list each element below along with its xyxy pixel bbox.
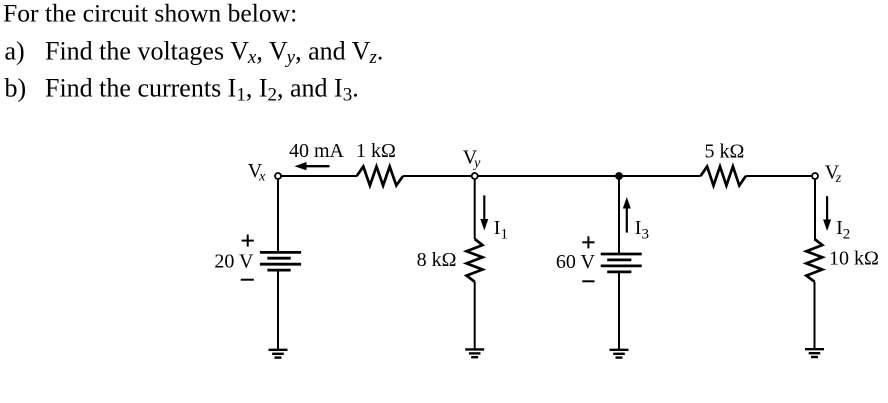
minus sign 60V (582, 280, 594, 282)
current arrow I3 up (623, 197, 631, 233)
current arrow I2 down (823, 196, 831, 231)
ground right (805, 349, 824, 357)
ground left (269, 350, 288, 358)
svg-text:b): b) (5, 73, 27, 102)
svg-text:Vx: Vx (248, 160, 266, 185)
svg-text:I1: I1 (494, 217, 508, 243)
svg-text:Find the currents I1, I2, and: Find the currents I1, I2, and I3. (45, 73, 359, 105)
ground mid-left (465, 349, 484, 357)
ground mid-right (610, 350, 629, 358)
svg-text:a): a) (5, 37, 25, 66)
svg-text:1 kΩ: 1 kΩ (356, 140, 396, 162)
junction node dot (615, 172, 623, 180)
svg-text:10 kΩ: 10 kΩ (829, 247, 879, 269)
wire mid branch: 8k to ground (474, 282, 476, 350)
wire right branch: 10k to ground (814, 282, 816, 350)
battery V2 60V (601, 254, 642, 272)
current arrow I1 down (480, 195, 488, 230)
wire left branch: battery to ground (277, 270, 279, 350)
plus sign 60V (582, 236, 594, 248)
svg-text:For the circuit shown below:: For the circuit shown below: (3, 0, 297, 27)
wire top: 1k to 5k through Vy node and junction (403, 175, 701, 177)
problem statement text (3, 0, 383, 105)
svg-text:20 V: 20 V (214, 251, 254, 273)
current arrow 40 mA pointing left (295, 162, 330, 170)
wire mid2 branch: junction down to battery (618, 176, 620, 254)
svg-text:I2: I2 (836, 217, 850, 243)
wire top: 5k to Vz (746, 175, 815, 177)
wire left branch: Vx down to battery (277, 176, 279, 252)
wire mid branch: Vy down to 8k (474, 176, 476, 239)
resistor R 1k zigzag (357, 167, 403, 186)
resistor R 8k vertical zigzag (467, 239, 483, 282)
svg-text:Vy: Vy (463, 146, 481, 171)
resistor R 5k zigzag (701, 167, 746, 186)
minus sign 20V (241, 279, 254, 281)
node Vx open circle (275, 173, 281, 179)
svg-text:Find the voltages Vx, Vy, and: Find the voltages Vx, Vy, and Vz. (45, 37, 383, 69)
resistor R 10k vertical zigzag (806, 239, 822, 282)
wire top: Vx to 1k resistor (278, 175, 357, 177)
svg-text:60 V: 60 V (556, 251, 596, 273)
plus sign 20V (242, 235, 254, 247)
node Vz open circle (812, 173, 818, 179)
svg-text:Vz: Vz (825, 161, 842, 186)
wire right branch: Vz down to 10k (814, 176, 816, 239)
wire mid2 branch: battery to ground (618, 272, 620, 350)
svg-text:40 mA: 40 mA (289, 140, 345, 162)
svg-text:8 kΩ: 8 kΩ (417, 249, 457, 271)
svg-text:I3: I3 (635, 217, 649, 243)
svg-text:5 kΩ: 5 kΩ (705, 141, 745, 163)
battery V1 20V (260, 252, 301, 270)
node Vy open circle (472, 173, 478, 179)
